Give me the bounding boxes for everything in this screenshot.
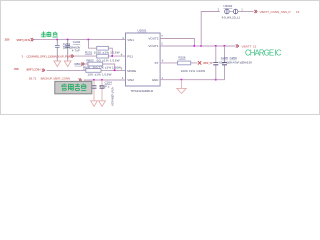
svg-text:VBATT_CONN: VBATT_CONN — [26, 67, 41, 71]
node junction C204 — [101, 79, 103, 81]
svg-text:4.7uF ±20% 6.3V: 4.7uF ±20% 6.3V — [110, 87, 114, 106]
node chevron R803 row — [81, 62, 84, 65]
node VBATT_CONN label — [4, 38, 33, 42]
svg-text:R201: R201 — [85, 50, 93, 54]
wire main VBATT rail — [34, 39, 126, 41]
wire VOUT2 — [160, 39, 194, 47]
svg-text:VOUT2: VOUT2 — [148, 37, 158, 41]
svg-text:R206: R206 — [178, 56, 186, 60]
svg-text:100K ±1% 1/16W: 100K ±1% 1/16W — [94, 50, 120, 54]
capacitor C204 — [100, 80, 105, 101]
svg-text:VOUT1: VOUT1 — [148, 44, 158, 48]
label R804 refdes — [75, 62, 83, 66]
wire R201 pullup tap — [89, 40, 113, 57]
svg-text:9-9_H9_20_L1: 9-9_H9_20_L1 — [222, 16, 241, 20]
node junction gnd arrow — [181, 79, 183, 81]
node junction C205 bottom — [215, 79, 217, 81]
ground arrow below C202 — [64, 61, 71, 67]
node junction C205 — [215, 45, 217, 47]
svg-text:15: 15 — [296, 10, 300, 14]
svg-text:BACKUP_VBAT_CONN: BACKUP_VBAT_CONN — [41, 76, 71, 80]
svg-text:0.1uF ±10% 4.7uF ±20% 6.3V: 0.1uF ±10% 4.7uF ±20% 6.3V — [219, 61, 252, 65]
wire ST row — [160, 62, 198, 64]
capacitor C206 — [222, 46, 227, 80]
wire to SNS connector — [238, 11, 254, 13]
capacitor C202 — [65, 40, 70, 61]
sheet border — [1, 1, 320, 115]
label C204 — [105, 81, 113, 85]
svg-text:VBAT_ST: VBAT_ST — [203, 61, 213, 65]
value R206 — [181, 69, 206, 73]
node junction C201 — [56, 39, 58, 41]
wire VOUT1 rail — [160, 45, 235, 47]
svg-text:4.7uF ±: 4.7uF ± — [100, 84, 110, 88]
backup battery highlight box — [55, 81, 92, 93]
value TPS2113ADRLR — [131, 89, 154, 93]
node BACKUP_VBAT_CONN label — [29, 76, 82, 81]
node junction C202 — [67, 39, 69, 41]
svg-text:VIN1: VIN1 — [127, 38, 134, 42]
wire R803 row — [85, 64, 115, 70]
node junction C206 — [224, 45, 226, 47]
node VBATT_CONN label 2 — [14, 67, 45, 72]
node junction PS1 — [111, 55, 113, 57]
svg-text:VIN2: VIN2 — [127, 78, 134, 82]
label C202 — [73, 40, 81, 44]
label R206 — [178, 56, 186, 60]
svg-text:15.68: 15.68 — [14, 67, 20, 71]
fuse L3001 — [225, 9, 238, 14]
label R201 — [85, 50, 120, 54]
net label 备用电池 (backup battery, green) — [62, 84, 87, 91]
label C206 — [230, 56, 238, 60]
svg-text:C206: C206 — [230, 56, 238, 60]
net label 主电池 (main battery, green) — [41, 31, 58, 37]
resistor R805 — [86, 69, 101, 73]
node junction SNS tap — [200, 45, 202, 47]
svg-text:VBATT_CONN_SNS_P: VBATT_CONN_SNS_P — [260, 10, 291, 14]
resistor R206 — [178, 61, 191, 65]
svg-text:QCM6490_GPIO_110/BACKUP_PWR: QCM6490_GPIO_110/BACKUP_PWR — [27, 54, 73, 58]
resistor R201 — [97, 46, 109, 50]
wire PS1 row — [74, 55, 125, 57]
svg-text:MODE: MODE — [127, 69, 136, 73]
value L3001 — [222, 16, 241, 20]
svg-text:U2001: U2001 — [137, 29, 146, 33]
svg-text:CHARGE IC: CHARGE IC — [245, 48, 282, 57]
svg-text:ST: ST — [155, 61, 159, 65]
label R805 — [83, 65, 121, 69]
label C205 — [221, 56, 229, 60]
wire MODE row — [46, 69, 125, 71]
wire GND row — [160, 79, 225, 81]
value C204 — [100, 84, 110, 88]
IC U2001 TPS2113A power mux — [126, 33, 161, 86]
svg-text:C202: C202 — [73, 40, 81, 44]
value C203 rotated — [110, 87, 114, 106]
value C201 10uF — [63, 45, 81, 49]
capacitor C203 — [92, 80, 97, 101]
label R803 — [86, 58, 119, 62]
svg-text:PS1: PS1 — [127, 54, 133, 58]
node GPIO backup label — [22, 54, 74, 58]
ground arrow below C201 — [54, 61, 61, 67]
node junction R201 tap — [88, 39, 90, 41]
svg-text:10K ±1% 1/16W: 10K ±1% 1/16W — [88, 73, 112, 77]
svg-text:U3002: U3002 — [223, 4, 232, 8]
svg-text:4.7uF: 4.7uF — [72, 48, 80, 52]
svg-text:15.68: 15.68 — [4, 38, 10, 42]
svg-text:R804: R804 — [75, 62, 83, 66]
svg-text:TPS2113ADRLR: TPS2113ADRLR — [131, 89, 154, 93]
wire VIN2 row — [84, 79, 126, 81]
no-connect X — [198, 61, 201, 64]
node VBATT_CONN_SNS_P label — [254, 10, 299, 14]
value C202 4.7uF — [72, 48, 80, 52]
node junction C203 — [93, 79, 95, 81]
svg-text:VBATT_CONN: VBATT_CONN — [16, 38, 30, 42]
ground arrow below C204 — [99, 101, 106, 107]
label R806 10K — [88, 73, 112, 77]
node VBATT label — [236, 44, 257, 48]
label U2001 — [137, 29, 146, 33]
capacitor C205 — [213, 46, 218, 80]
node junction VOUT2 join — [194, 45, 196, 47]
wire VBATT_CONN_SNS_P vertical — [201, 12, 220, 47]
node junction MODE row — [114, 70, 116, 72]
svg-text:C205: C205 — [221, 56, 229, 60]
value C205 C206 — [219, 61, 252, 65]
svg-text:100K ±1% 1/16W: 100K ±1% 1/16W — [181, 69, 206, 73]
ground — [177, 80, 186, 94]
resistor R803 — [88, 62, 103, 66]
svg-text:69.72: 69.72 — [29, 76, 37, 80]
svg-text:GND: GND — [152, 78, 160, 82]
label C201 — [63, 42, 71, 46]
capacitor C201 — [55, 40, 60, 61]
ground arrow below C203 — [91, 101, 98, 107]
resistor R202 — [97, 54, 109, 58]
label L3001 — [223, 4, 232, 8]
